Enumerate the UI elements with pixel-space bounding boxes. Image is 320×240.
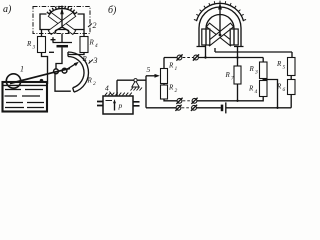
connector pair rail y101 [177,98,182,103]
connector pair bottom rail [176,105,181,110]
rail1 (upper) [215,52,292,58]
connector pair rail2 [177,55,182,60]
pressure arrow [114,102,116,111]
bottom rail left [146,76,176,108]
indicator inner frame [40,14,84,30]
svg-text:2: 2 [175,88,178,94]
lever hinge dot [40,79,44,83]
svg-text:а): а) [3,4,12,15]
wire R3 to R4 [262,79,264,81]
svg-text:4: 4 [105,84,109,93]
magnet feet [197,46,244,48]
resistor R6 (b) [288,80,296,95]
svg-text:R: R [82,55,88,63]
wire rheostat bottom to pivot [55,74,71,91]
wire R4 bottom to rail y101 [197,97,263,101]
resistor R7 (b) [234,66,241,84]
label 2 pointer [88,24,92,28]
rail2 [199,58,264,63]
pressure sensor box (b) [103,96,133,114]
scale ticks b [194,1,246,21]
svg-text:7: 7 [231,76,234,82]
svg-text:б): б) [108,5,117,16]
pivot circle right [62,68,67,73]
right coil [230,29,238,45]
bottom rail to battery [197,107,221,109]
svg-text:p: p [118,101,123,110]
svg-text:2: 2 [93,81,96,87]
svg-text:1: 1 [20,65,24,74]
svg-text:2: 2 [93,21,97,30]
plus sign [51,37,56,42]
svg-text:R: R [89,39,95,47]
battery GB (a) [53,42,73,44]
svg-text:6: 6 [283,87,286,93]
resistor R4 (b) [260,81,268,97]
pivot hatching [131,88,143,91]
svg-text:R: R [87,77,93,85]
svg-text:4: 4 [255,88,258,95]
pivot circle left [54,69,59,74]
bottom rail right [226,107,291,109]
coil pedestal [56,27,69,33]
pivot support triangle [132,81,139,88]
scale arc b [196,3,243,21]
wire R6 to bottom rail [290,95,292,108]
tap wire from R3/R4 junction [263,80,277,108]
battery (b) [221,105,224,112]
wire R5 to R6 [290,76,292,80]
scale ticks a [47,6,77,14]
wire R2 bottom to rail y101 [164,99,177,101]
resistor R4 (a) [80,37,88,53]
svg-text:1: 1 [175,66,178,72]
wiper arm with arrow [65,64,77,71]
needle a [61,10,63,27]
svg-text:5: 5 [283,65,286,71]
label 3 pointer [89,60,94,64]
lever beam [117,79,146,81]
right pipe stubs [133,102,140,106]
wire R3 down to tank post [42,53,48,85]
crossed coils (logometer) a [48,12,75,34]
resistor R5 (b) [288,58,296,76]
svg-text:5: 5 [147,65,151,74]
wire R1 to R2 [163,84,165,86]
svg-text:R: R [276,60,282,68]
wire from frame to R4 [83,30,85,37]
float [6,74,20,88]
svg-text:R: R [249,65,255,73]
resistor R2 (b) [161,85,168,99]
svg-text:4: 4 [95,42,98,49]
liquid line inside [106,100,113,102]
wire coils to battery [61,34,63,43]
scale arc a [49,8,76,14]
svg-text:R: R [225,71,231,79]
resistor R1 (b) [161,69,168,84]
resistor R3 (a) [38,37,46,53]
rheostat winding R1 R2 (arc) [68,52,88,92]
left pipe stubs [97,102,103,106]
hatching on box top [105,93,132,96]
resistor R3 (b) [260,62,268,79]
stub right leg to R7 column [237,47,239,67]
label 4 pointer [110,92,113,96]
svg-text:R: R [168,84,174,92]
svg-text:R: R [168,62,174,70]
wire R4 to rheostat top [68,53,84,55]
needle pivot [219,34,222,37]
svg-text:R: R [26,40,32,48]
svg-text:R: R [248,85,254,93]
svg-text:3: 3 [93,56,98,65]
dash-dot enclosure of indicator unit 2 [33,7,90,34]
svg-text:3: 3 [254,70,258,76]
svg-text:3: 3 [33,44,36,50]
wiper arrow 5 [146,75,156,77]
needle b [219,9,221,35]
link beam to sensor box [116,80,118,96]
stub left coil to rail2 [205,45,207,58]
minus sign [49,51,54,53]
wire R7 to rail y101 [237,84,239,101]
wire battery minus to wiper pivot [56,48,62,70]
junction dots [204,56,206,58]
left coil [202,29,210,45]
magnet horseshoe outer [199,7,241,47]
crossed coils (logometer) b [207,23,234,46]
wire from frame to R3 [41,30,43,37]
stub center to rail1 [214,48,216,52]
float lever [10,68,70,83]
fuel level lines [5,90,45,108]
tank (a) [3,82,48,112]
magnet horseshoe inner [206,15,234,45]
R1 R2 divider chain [164,58,177,69]
